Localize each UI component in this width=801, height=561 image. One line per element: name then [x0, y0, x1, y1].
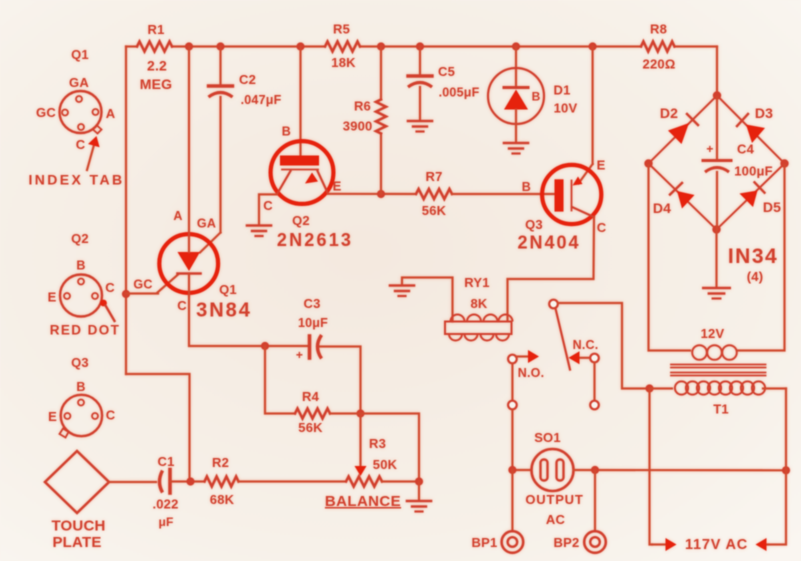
svg-text:B: B: [282, 125, 291, 139]
transformer primary coil: [675, 381, 765, 394]
svg-text:56K: 56K: [298, 420, 323, 435]
wire anode A from rail: [188, 47, 190, 234]
svg-text:R8: R8: [650, 22, 667, 37]
resistor R8: [641, 42, 675, 52]
svg-text:Q1: Q1: [219, 282, 237, 297]
wire R4 right leg: [330, 412, 361, 414]
svg-text:E: E: [333, 179, 342, 194]
wire R3 wiper: [355, 414, 367, 477]
wire C5 top: [419, 47, 421, 77]
resistor R2: [205, 477, 239, 487]
label RED DOT: [50, 323, 121, 338]
transistor Q1 triangle: [178, 233, 201, 296]
label GA Q1: [197, 217, 216, 231]
label B D1: [532, 90, 541, 104]
label A socket: [106, 106, 116, 121]
wire rail corner to bridge: [716, 47, 718, 96]
label Q1 socket: [71, 47, 89, 62]
svg-text:Q3: Q3: [525, 217, 543, 232]
node junction A-rail: [185, 42, 193, 50]
label R6 value: [343, 119, 373, 134]
diode D5: [740, 182, 765, 207]
label Q2 ref: [292, 213, 310, 228]
label GC Q1: [133, 278, 152, 292]
label D1 ref: [553, 83, 570, 98]
svg-text:PLATE: PLATE: [52, 534, 101, 551]
label C Q2 socket: [105, 280, 115, 295]
node junction T1 primary left: [645, 384, 653, 392]
svg-text:C: C: [106, 408, 116, 423]
label C Q3 socket: [106, 408, 116, 423]
node bridge top: [713, 91, 721, 99]
wire bridge-right to secondary: [738, 165, 785, 351]
resistor R1: [137, 42, 172, 52]
label E Q3: [597, 158, 606, 173]
svg-text:2N2613: 2N2613: [277, 230, 353, 250]
binding post BP2: [584, 531, 606, 553]
svg-text:C5: C5: [438, 64, 455, 79]
label Q1 type: [196, 300, 252, 322]
label C5 value: [439, 86, 480, 100]
wire C2 top: [219, 47, 221, 87]
svg-text:R5: R5: [333, 22, 350, 37]
label BP2: [554, 535, 580, 550]
capacitor C4: [703, 97, 731, 230]
label GC socket: [36, 105, 56, 120]
wire 117V right: [756, 389, 787, 552]
label SO1: [534, 430, 561, 445]
label R5: [333, 22, 350, 37]
node bridge right: [780, 159, 788, 167]
svg-text:.022: .022: [152, 497, 178, 512]
svg-text:D2: D2: [660, 105, 678, 121]
transistor Q2 legs: [277, 171, 328, 194]
svg-text:.005μF: .005μF: [439, 86, 480, 100]
wire R2 to R3: [239, 480, 347, 482]
ground Q2 collector: [247, 226, 271, 237]
wire R6 leg: [380, 47, 382, 195]
transistor Q3 circle: [542, 165, 601, 224]
wire D1 top: [515, 47, 517, 88]
label C5: [438, 64, 455, 79]
svg-text:3900: 3900: [343, 119, 373, 134]
label R3 value: [373, 457, 398, 472]
svg-text:N.C.: N.C.: [573, 338, 599, 352]
wire C5 bottom: [419, 87, 421, 121]
label TOUCH: [51, 518, 105, 535]
svg-text:R3: R3: [369, 436, 386, 451]
svg-text:BP2: BP2: [554, 535, 580, 550]
terminal NO bottom: [508, 401, 517, 410]
label Q3 type: [517, 233, 580, 253]
diode D1 circle: [488, 68, 544, 124]
label C Q3: [597, 220, 607, 235]
svg-text:C4: C4: [737, 142, 755, 157]
svg-text:E: E: [48, 290, 57, 305]
node junction C2-rail: [216, 42, 224, 50]
label D1 value: [554, 101, 578, 116]
transistor Q3 base bar: [555, 179, 572, 211]
label R1: [147, 22, 164, 37]
label B Q2: [282, 125, 291, 139]
terminal NC bottom: [590, 401, 599, 410]
svg-text:B: B: [522, 180, 531, 194]
label R8 value: [643, 57, 676, 72]
transistor Q2 circle: [271, 141, 334, 204]
transformer core: [671, 365, 766, 376]
label R4 value: [298, 420, 323, 435]
wire top supply rail: [126, 45, 717, 47]
svg-text:(4): (4): [747, 269, 764, 284]
label C1 value: [152, 497, 178, 530]
label R2: [212, 455, 229, 470]
wire NC stub: [593, 363, 595, 401]
node junction D1-rail: [512, 42, 520, 50]
label NO: [518, 366, 545, 380]
wire emitter line: [328, 193, 416, 195]
node bridge left: [644, 159, 652, 167]
label R6: [354, 99, 371, 114]
diode D1 symbol: [504, 88, 528, 110]
wire NO to SO1: [511, 410, 513, 471]
label 12V: [701, 326, 725, 341]
svg-text:D4: D4: [653, 200, 671, 216]
svg-text:R7: R7: [425, 169, 442, 184]
wire primary left: [650, 387, 673, 389]
resistor R6: [376, 100, 386, 134]
svg-text:AC: AC: [546, 512, 566, 527]
capacitor C5: [408, 76, 432, 87]
svg-text:C2: C2: [239, 72, 256, 87]
diode D3: [737, 114, 765, 143]
node junction R6-rail: [377, 42, 385, 50]
svg-text:BALANCE: BALANCE: [325, 493, 401, 510]
svg-text:18K: 18K: [331, 55, 356, 70]
resistor R3: [346, 477, 382, 487]
svg-text:R1: R1: [147, 22, 164, 37]
svg-text:C: C: [597, 220, 607, 235]
svg-text:+: +: [296, 348, 303, 362]
wire BP2 leg: [594, 470, 596, 531]
svg-text:E: E: [48, 409, 57, 424]
label INDEX TAB: [28, 172, 124, 188]
transistor Q2 emitter arrow: [305, 173, 318, 184]
transistor Q3 collector leg: [572, 207, 594, 217]
label D2: [660, 105, 678, 121]
svg-text:56K: 56K: [422, 203, 447, 218]
label C2 value: [241, 93, 282, 107]
wire pivot to T1 primary: [558, 303, 650, 389]
index tab arrow: [87, 136, 100, 170]
wire R4 to R3 right: [361, 414, 420, 482]
svg-text:GA: GA: [69, 75, 89, 90]
label C socket: [76, 137, 86, 152]
wire Q1 cathode: [189, 296, 309, 346]
label Q3 socket: [71, 355, 89, 370]
label E Q3 socket: [48, 409, 57, 424]
svg-text:B: B: [76, 380, 85, 394]
ground D1: [504, 143, 528, 154]
capacitor C3: [310, 335, 322, 359]
svg-text:D1: D1: [553, 83, 570, 98]
diode D4: [670, 183, 695, 209]
wire NO junction to SO1: [512, 469, 531, 471]
svg-text:50K: 50K: [373, 457, 398, 472]
label D5: [763, 199, 781, 215]
node junction R4-left: [261, 342, 269, 350]
svg-text:C3: C3: [303, 296, 320, 311]
svg-text:B: B: [532, 90, 541, 104]
wire bridge arms: [649, 96, 785, 230]
svg-text:N.O.: N.O.: [518, 366, 545, 380]
label PLATE: [52, 534, 101, 551]
node junction GC: [122, 290, 130, 298]
label D3: [755, 105, 773, 121]
wire Q3 emitter: [579, 47, 593, 184]
svg-text:GA: GA: [197, 217, 216, 231]
svg-text:IN34: IN34: [728, 245, 778, 268]
svg-text:R2: R2: [212, 455, 229, 470]
label A Q1: [173, 209, 182, 223]
node junction R3-ground: [415, 477, 423, 485]
wire R4 left leg: [265, 346, 295, 414]
wire Q2 collector: [259, 194, 277, 224]
socket SO1: [532, 449, 574, 491]
wire primary right: [763, 387, 786, 389]
resistor R7: [416, 189, 452, 199]
svg-text:8K: 8K: [470, 296, 487, 311]
svg-text:10μF: 10μF: [298, 316, 328, 330]
label AC: [546, 512, 566, 527]
svg-text:3N84: 3N84: [196, 300, 252, 322]
label E Q2: [333, 179, 342, 194]
ground R3: [407, 501, 431, 512]
node junction C1-R2: [186, 477, 194, 485]
label GA socket: [69, 75, 89, 90]
wire R3 right: [382, 480, 419, 482]
label RY1: [464, 275, 489, 290]
svg-text:C: C: [76, 137, 86, 152]
label IN34 qty: [747, 269, 764, 284]
wire Q2 base: [299, 47, 301, 156]
node junction 117 right: [782, 466, 790, 474]
label R8: [650, 22, 667, 37]
wire C2 to GA: [200, 97, 221, 253]
transformer secondary coil: [692, 345, 737, 360]
label C Q1: [177, 298, 187, 313]
label R4: [302, 389, 320, 404]
label B Q2 socket: [76, 259, 85, 273]
wire NO stub: [511, 364, 513, 401]
relay RY1 coil: [445, 315, 513, 341]
svg-text:100μF: 100μF: [734, 164, 773, 179]
svg-text:GC: GC: [133, 278, 152, 292]
svg-text:RY1: RY1: [464, 275, 489, 290]
label Q2 type: [277, 230, 353, 250]
ground C5: [408, 121, 432, 132]
wire GC to Q1: [126, 275, 178, 294]
binding post BP1: [502, 531, 524, 553]
wire R3 ground stem: [418, 482, 420, 501]
wire left rail: [125, 47, 127, 375]
red dot pointer: [106, 306, 115, 322]
svg-text:μF: μF: [158, 515, 173, 529]
svg-text:MEG: MEG: [140, 76, 173, 92]
svg-text:INDEX TAB: INDEX TAB: [28, 172, 124, 188]
wire D1 bottom: [515, 110, 517, 143]
svg-text:C: C: [263, 198, 273, 213]
wire C1 to R2: [170, 480, 205, 482]
node junction C5-rail: [416, 42, 424, 50]
wire GC-branch to C1 node: [126, 374, 190, 482]
svg-text:C: C: [105, 280, 115, 295]
svg-text:R6: R6: [354, 99, 371, 114]
wire Q3 collector: [508, 217, 595, 320]
switch lever: [556, 309, 571, 370]
svg-text:.047μF: .047μF: [241, 93, 282, 107]
svg-text:BP1: BP1: [472, 535, 498, 550]
label C3: [303, 296, 320, 311]
label Q1 ref: [219, 282, 237, 297]
svg-text:GC: GC: [36, 105, 56, 120]
label BALANCE: [325, 493, 401, 510]
svg-text:T1: T1: [713, 402, 729, 417]
node junction R4-right: [356, 409, 364, 417]
label BP1: [472, 535, 498, 550]
svg-text:C: C: [177, 298, 187, 313]
label C3 plus: [296, 348, 303, 362]
socket Q2: [60, 275, 107, 317]
label Q2 socket: [71, 231, 89, 246]
resistor R4: [295, 409, 330, 419]
node bridge bottom: [712, 225, 720, 233]
svg-text:OUTPUT: OUTPUT: [525, 492, 583, 507]
label T1: [713, 402, 729, 417]
svg-text:A: A: [106, 106, 116, 121]
label C2: [239, 72, 256, 87]
wire C3 right: [320, 347, 361, 414]
svg-text:2N404: 2N404: [517, 233, 580, 253]
svg-text:TOUCH: TOUCH: [51, 518, 105, 535]
transistor Q1 circle: [159, 234, 218, 293]
label R2 value: [210, 492, 235, 507]
socket Q1: [60, 91, 102, 134]
label C4: [737, 142, 755, 157]
node junction SO1 left: [508, 466, 516, 474]
svg-text:68K: 68K: [210, 492, 235, 507]
wire 117V left: [650, 389, 677, 552]
node junction SO1 right: [591, 466, 599, 474]
svg-text:C1: C1: [157, 454, 174, 469]
svg-text:D3: D3: [755, 105, 773, 121]
label B Q3: [522, 180, 531, 194]
label C Q2: [263, 198, 273, 213]
switch pivot: [549, 300, 558, 309]
switch NC contact: [569, 351, 599, 364]
wire bridge-left to secondary: [649, 165, 691, 351]
svg-text:Q1: Q1: [71, 47, 89, 62]
label D4: [653, 200, 671, 216]
label C1: [157, 454, 174, 469]
svg-text:Q2: Q2: [71, 231, 89, 246]
label 117V AC: [685, 537, 748, 553]
socket Q3: [60, 395, 103, 438]
label OUTPUT: [525, 492, 583, 507]
node junction R6-E: [377, 190, 385, 198]
label R1 value: [140, 58, 173, 93]
svg-text:B: B: [76, 259, 85, 273]
label C4 plus: [706, 142, 713, 156]
svg-text:D5: D5: [763, 199, 781, 215]
resistor R5: [325, 42, 360, 52]
touch plate: [45, 451, 109, 513]
label IN34: [728, 245, 778, 268]
node junction Q3E-rail: [589, 42, 597, 50]
label B Q3 socket: [76, 380, 85, 394]
label RY1 value: [470, 296, 487, 311]
node junction Q2B-rail: [296, 42, 304, 50]
label R7: [425, 169, 442, 184]
wire RY1 left: [402, 278, 453, 322]
svg-text:12V: 12V: [701, 326, 725, 341]
wire SO1 right: [574, 469, 787, 471]
switch NO contact: [508, 350, 539, 363]
svg-text:10V: 10V: [554, 101, 578, 116]
label E Q2 socket: [48, 290, 57, 305]
capacitor C1: [160, 470, 171, 494]
svg-text:220Ω: 220Ω: [643, 57, 676, 72]
svg-text:117V AC: 117V AC: [685, 537, 748, 553]
label Q3 ref: [525, 217, 543, 232]
svg-text:A: A: [173, 209, 182, 223]
label R5 value: [331, 55, 356, 70]
svg-text:+: +: [706, 142, 713, 156]
ground RY1: [390, 286, 414, 297]
svg-text:Q2: Q2: [292, 213, 310, 228]
svg-text:2.2: 2.2: [147, 58, 167, 74]
transistor Q3 emitter arrow: [573, 177, 583, 186]
label C3 value: [298, 316, 328, 330]
capacitor C2: [209, 86, 233, 97]
label R7 value: [422, 203, 447, 218]
label R3: [369, 436, 386, 451]
svg-text:R4: R4: [302, 389, 320, 404]
ground bridge: [703, 288, 729, 299]
transistor Q2 base bar: [280, 156, 319, 170]
label NC: [573, 338, 599, 352]
wire R7 to Q3: [452, 193, 555, 195]
wire BP1 leg: [511, 470, 513, 531]
wire bridge bottom to ground: [715, 231, 717, 288]
svg-text:E: E: [597, 158, 606, 173]
svg-text:SO1: SO1: [534, 430, 561, 445]
wire touch to C1: [109, 481, 156, 483]
svg-text:RED DOT: RED DOT: [50, 323, 121, 338]
diode D2: [668, 114, 698, 144]
svg-text:Q3: Q3: [71, 355, 89, 370]
label C4 value: [734, 164, 773, 179]
